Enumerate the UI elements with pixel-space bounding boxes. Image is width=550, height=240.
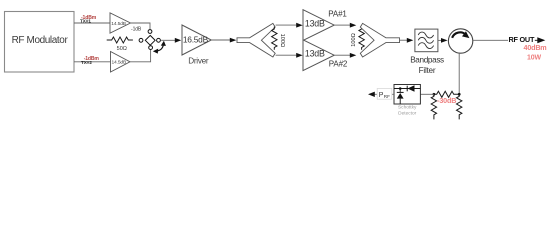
circulator <box>448 29 472 53</box>
svg-text:Filter: Filter <box>419 66 436 75</box>
wire circulator to RF OUT <box>473 39 508 41</box>
splitter (Wilkinson divider) <box>237 23 275 57</box>
wire TX#1 <box>74 22 110 24</box>
series resistor <box>434 91 459 97</box>
svg-text:14.5dB: 14.5dB <box>111 21 126 27</box>
svg-text:-30dB: -30dB <box>437 96 456 105</box>
svg-text:RF Modulator: RF Modulator <box>12 35 69 46</box>
junction dot <box>399 87 402 90</box>
label P_RF <box>377 88 392 99</box>
wire TX#2 <box>74 61 111 63</box>
junction left <box>433 93 436 96</box>
svg-text:10W: 10W <box>527 54 542 61</box>
wire circulator down to attenuator <box>458 53 460 94</box>
resistor 100ohm (combiner) <box>351 27 364 50</box>
svg-text:100Ω: 100Ω <box>279 34 285 48</box>
wire driver to splitter <box>211 39 230 41</box>
wire PA1 to combiner <box>334 24 350 26</box>
svg-text:13dB: 13dB <box>305 49 325 59</box>
wire from amp A1 to switch top port <box>131 23 151 29</box>
wire from amp A2 to switch bottom port <box>130 50 151 62</box>
svg-text:PA#1: PA#1 <box>328 9 347 18</box>
junction right <box>458 93 461 96</box>
arrow Prf out <box>368 92 375 97</box>
amplifier A2 14.5dB <box>111 52 131 73</box>
svg-text:14.5dB: 14.5dB <box>111 60 126 66</box>
series diode (pointing left) <box>406 86 408 92</box>
svg-text:TX#1: TX#1 <box>80 19 91 24</box>
wire switch to driver <box>161 39 175 41</box>
bandpass filter FL1 <box>415 29 438 52</box>
shunt diode (pointing up) <box>399 89 401 93</box>
svg-text:40dBm: 40dBm <box>524 43 547 52</box>
wire PA2 to combiner <box>334 54 350 56</box>
wire splitter to PA2 <box>276 54 297 56</box>
PA#2 amplifier 13dB <box>303 40 334 71</box>
shunt resistor left <box>431 94 436 119</box>
driver amplifier 16.5dB <box>182 25 211 55</box>
Schottky detector <box>394 85 420 105</box>
wire filter to circulator <box>438 39 441 41</box>
svg-text:Schottky: Schottky <box>398 105 417 111</box>
PA#1 amplifier 13dB <box>303 10 334 41</box>
svg-text:13dB: 13dB <box>305 19 325 29</box>
RF Modulator box <box>5 12 75 73</box>
attenuator -30dB <box>431 91 462 119</box>
combiner <box>360 23 399 57</box>
svg-text:Bandpass: Bandpass <box>410 55 444 64</box>
shunt resistor right <box>457 94 462 119</box>
svg-text:50Ω: 50Ω <box>117 46 127 52</box>
wire attenuator to detector <box>420 93 434 95</box>
wire combiner to filter <box>400 39 408 41</box>
wire detector to Prf <box>375 93 395 95</box>
internal wire <box>394 88 420 90</box>
svg-text:Detector: Detector <box>398 111 417 117</box>
amplifier A1 14.5dB <box>110 13 131 33</box>
resistor 50ohm termination <box>107 37 133 52</box>
wire splitter to PA1 <box>276 24 297 26</box>
svg-text:100Ω: 100Ω <box>351 33 357 47</box>
svg-text:-1dB: -1dB <box>131 27 142 33</box>
resistor 100ohm (splitter) <box>272 27 285 50</box>
svg-text:Driver: Driver <box>188 56 209 65</box>
transfer switch S1 <box>139 30 166 54</box>
svg-text:TX#2: TX#2 <box>81 60 92 65</box>
svg-text:PA#2: PA#2 <box>329 60 348 69</box>
svg-text:16.5dB: 16.5dB <box>183 35 209 45</box>
svg-text:RF: RF <box>384 94 390 99</box>
